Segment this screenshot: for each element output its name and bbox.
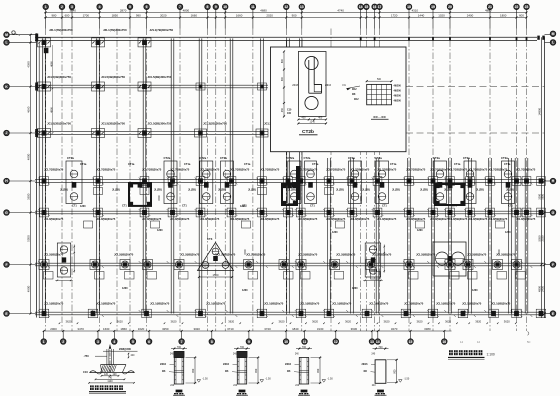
svg-text:JCL8(5B)30x75: JCL8(5B)30x75 — [44, 217, 64, 221]
column row E x=450 — [446, 177, 455, 186]
svg-text:JL(2B): JL(2B) — [444, 188, 452, 191]
grid bubble top axis 21 — [487, 4, 492, 9]
svg-text:400: 400 — [318, 117, 323, 120]
beam stub dark block — [174, 351, 184, 357]
svg-text:500: 500 — [377, 78, 382, 81]
pile cap CT2 x=227 — [221, 161, 234, 204]
grid bubble top axis 17 — [377, 4, 382, 9]
beam vertical x=262 — [260, 38, 262, 313]
svg-text:4800: 4800 — [183, 9, 190, 13]
beam vertical x=44 — [42, 38, 44, 313]
column row G x=335 — [330, 260, 340, 270]
column row E x=378 — [373, 177, 382, 186]
grid bubble top axis 18 — [406, 4, 411, 9]
svg-text:2870: 2870 — [120, 9, 127, 13]
sub cap below G — [409, 272, 419, 280]
svg-text:1260: 1260 — [505, 231, 511, 234]
junction tick — [444, 209, 456, 216]
wire axis line x=286 — [285, 29, 287, 332]
junction tick — [295, 310, 307, 317]
svg-text:2Φ16: 2Φ16 — [160, 363, 167, 366]
svg-text:15: 15 — [409, 340, 413, 344]
junction tick — [484, 310, 496, 317]
junction tick — [38, 310, 50, 317]
column row F x=352 — [348, 208, 357, 217]
junction tick — [256, 178, 268, 185]
level mark — [197, 380, 201, 383]
junction tick — [521, 178, 533, 185]
detail footing wall lines — [106, 349, 108, 365]
column row G x=516 — [512, 260, 522, 270]
grid bubble left axis M — [4, 32, 9, 37]
svg-text:JCL5(3B)300x750: JCL5(3B)300x750 — [47, 121, 71, 125]
sub cap below G — [301, 272, 311, 280]
column row F x=450 — [446, 208, 455, 217]
wire axis line x=225 — [224, 29, 226, 332]
svg-text:900: 900 — [192, 368, 195, 373]
svg-text:JCL1(9B)30x70: JCL1(9B)30x70 — [462, 302, 482, 306]
leader arrow to section — [346, 86, 360, 89]
svg-text:3620: 3620 — [445, 320, 451, 324]
top edge columns right half — [360, 37, 362, 41]
svg-text:3380: 3380 — [424, 327, 431, 331]
svg-text:JZL1(7B)300x750: JZL1(7B)300x750 — [103, 28, 127, 32]
svg-text:JCL7(5B)30x75: JCL7(5B)30x75 — [96, 167, 116, 171]
wire axis line x=130 — [129, 29, 131, 332]
level mark — [322, 380, 326, 383]
dimension line top tier 2 — [44, 17, 527, 19]
grid bubble bottom x=304 — [304, 331, 306, 339]
grid bubble top axis 9 — [213, 4, 218, 9]
detail footing dims — [102, 375, 119, 377]
svg-text:G: G — [5, 211, 8, 215]
column row E x=541 — [537, 177, 546, 186]
junction tick — [226, 310, 238, 317]
wire axis line x=433 — [432, 29, 434, 332]
svg-text:5050: 5050 — [26, 235, 30, 242]
beam row F — [35, 210, 545, 212]
sub cap below E — [140, 188, 149, 195]
sub cap below F — [151, 221, 160, 228]
column row F x=409 — [405, 208, 414, 217]
wire axis line x=180 — [179, 29, 181, 332]
grid bubble top axis 7 — [177, 4, 182, 9]
svg-text:JL(2B): JL(2B) — [362, 188, 370, 191]
junction tick — [139, 310, 151, 317]
right dim — [249, 357, 260, 359]
junction tick — [195, 310, 207, 317]
dimension line bottom — [44, 330, 452, 332]
svg-text:JCL8(5B)30x75: JCL8(5B)30x75 — [200, 217, 220, 221]
wire right edge beam — [541, 37, 543, 317]
pile cap CT2 x=355 — [349, 161, 362, 204]
dimension line left — [30, 35, 32, 314]
svg-text:CT1a: CT1a — [128, 162, 135, 166]
svg-text:3710: 3710 — [227, 327, 234, 331]
wire axis line x=366 — [365, 29, 367, 332]
dim left of CT2b — [283, 52, 285, 117]
grid bubble top axis 15 — [364, 4, 369, 9]
junction tick — [92, 261, 104, 268]
beam row D — [35, 131, 268, 133]
pile cap F-G x=64 — [57, 243, 70, 277]
svg-text:1660: 1660 — [236, 14, 243, 18]
svg-text:JCL8(5B)30x75: JCL8(5B)30x75 — [377, 217, 397, 221]
svg-text:600: 600 — [281, 58, 284, 63]
svg-text:16: 16 — [442, 340, 446, 344]
svg-text:CT1: CT1 — [72, 204, 77, 207]
svg-text:900: 900 — [281, 76, 284, 81]
junction tick — [464, 310, 476, 317]
column row F x=433 — [429, 208, 438, 217]
beam vertical right x=516 — [514, 158, 516, 314]
junction tick — [403, 310, 415, 317]
pile cap CT2 x=74 — [66, 161, 82, 204]
pile circle bottom — [305, 96, 318, 109]
svg-text:J: J — [6, 131, 8, 135]
grid bubble top axis 4 — [97, 4, 102, 9]
column JZ x=44 y=133 — [38, 129, 51, 138]
svg-text:JZL1(7B)300x750: JZL1(7B)300x750 — [150, 28, 174, 32]
column row E x=144 — [140, 177, 149, 186]
svg-text:2Φ16: 2Φ16 — [362, 363, 369, 366]
svg-text:1:100: 1:100 — [487, 352, 495, 356]
grid bubble top axis 11 — [250, 4, 255, 9]
svg-text:12: 12 — [334, 340, 338, 344]
svg-text:JL(2B): JL(2B) — [154, 188, 162, 191]
dim under triangle — [199, 276, 232, 278]
wall corner columns — [282, 184, 287, 189]
svg-text:2000: 2000 — [50, 327, 57, 331]
svg-text:900: 900 — [255, 368, 258, 373]
svg-text:17: 17 — [378, 5, 382, 9]
grid bubble bottom x=44 — [43, 331, 45, 339]
column row G x=301 — [296, 260, 306, 270]
svg-text:1700: 1700 — [83, 14, 90, 18]
svg-text:11: 11 — [251, 5, 255, 9]
detail footing title — [90, 385, 123, 390]
svg-text:JCL8(5B)30x75: JCL8(5B)30x75 — [260, 217, 280, 221]
grid bubble bottom x=212 — [211, 331, 213, 339]
junction tick — [323, 261, 335, 268]
svg-text:1140: 1140 — [107, 380, 113, 383]
column JZ small x=200 y=86 — [196, 83, 205, 90]
grid bubble right axis F — [550, 262, 555, 267]
svg-text:4800: 4800 — [50, 107, 54, 113]
column row G x=148 — [143, 260, 153, 270]
junction tick — [511, 209, 523, 216]
svg-text:CT1a: CT1a — [454, 162, 461, 166]
svg-text:JL(2B): JL(2B) — [336, 188, 344, 191]
junction tick — [226, 178, 238, 185]
column row E x=262 — [258, 177, 267, 186]
beam vertical x=200 — [198, 38, 200, 313]
svg-text:11: 11 — [303, 340, 307, 344]
svg-text:JCL5(3B)300x750: JCL5(3B)300x750 — [101, 121, 125, 125]
junction tick — [195, 261, 207, 268]
svg-text:JCL7(5B)30x75: JCL7(5B)30x75 — [516, 167, 536, 171]
svg-text:1850: 1850 — [112, 14, 119, 18]
detail label — [299, 393, 308, 396]
column base pad — [239, 390, 246, 393]
svg-text:5C: 5C — [527, 340, 530, 344]
pile cap CT2 x=294 — [288, 161, 301, 204]
beam vertical x=288 — [286, 38, 288, 313]
svg-text:18: 18 — [407, 5, 411, 9]
svg-text:900: 900 — [394, 369, 397, 374]
svg-text:4: 4 — [99, 5, 101, 9]
wire axis line x=375 — [374, 29, 376, 332]
svg-text:450: 450 — [281, 107, 284, 112]
svg-text:3620: 3620 — [279, 320, 285, 324]
svg-text:CT2a: CT2a — [199, 156, 206, 160]
svg-text:L: L — [5, 41, 7, 45]
svg-text:CT2b: CT2b — [302, 129, 314, 135]
svg-text:L: L — [552, 41, 554, 45]
svg-text:3620: 3620 — [171, 320, 177, 324]
column row E x=490 — [486, 177, 495, 186]
grid bubble left axis F — [4, 262, 9, 267]
beam vertical right x=352 — [350, 158, 352, 314]
svg-text:JCL5(3B)300x750: JCL5(3B)300x750 — [47, 75, 71, 79]
junction tick — [444, 178, 456, 185]
junction tick — [167, 178, 179, 185]
svg-text:1260: 1260 — [240, 205, 246, 208]
column bar in CT2b — [308, 60, 310, 93]
column row F x=288 — [284, 208, 293, 217]
junction tick — [139, 178, 151, 185]
dimension line right — [541, 180, 543, 182]
column row H x=463 — [458, 309, 468, 318]
svg-text:1500: 1500 — [158, 195, 161, 201]
dim below cap — [363, 279, 383, 281]
svg-text:3: 3 — [97, 340, 99, 344]
column row H x=301 — [296, 309, 306, 318]
column row F x=526 — [522, 208, 531, 217]
svg-text:3620: 3620 — [384, 320, 390, 324]
svg-text:1260: 1260 — [242, 289, 248, 292]
junction tick — [295, 209, 307, 216]
grid bubble right axis E — [550, 311, 555, 316]
grid bubble top axis 2 — [59, 4, 64, 9]
wire axis line x=450 — [449, 29, 451, 332]
svg-text:JL(2B): JL(2B) — [218, 188, 226, 191]
svg-text:JCL1(9B)30x70: JCL1(9B)30x70 — [206, 302, 226, 306]
wire row C dashed right — [406, 86, 545, 88]
wall outline — [174, 358, 183, 385]
junction tick — [372, 209, 384, 216]
column row G x=249 — [244, 260, 254, 270]
junction tick — [372, 178, 384, 185]
title text — [449, 350, 482, 355]
column row H x=44 — [39, 309, 49, 318]
svg-text:1660: 1660 — [191, 14, 198, 18]
column row G x=371 — [366, 260, 376, 270]
svg-text:1440: 1440 — [418, 14, 425, 18]
svg-text:120: 120 — [113, 373, 118, 376]
svg-text:4Φ200: 4Φ200 — [394, 100, 402, 103]
junction tick — [323, 178, 335, 185]
column row F x=301 — [296, 208, 305, 217]
junction tick — [282, 209, 294, 216]
title underline — [448, 356, 485, 358]
sub cap below G — [450, 272, 460, 280]
svg-text:2: 2 — [62, 340, 64, 344]
junction tick — [346, 310, 358, 317]
junction tick — [295, 261, 307, 268]
column row E x=98 — [94, 177, 103, 186]
grid bubble right axis G — [550, 210, 555, 215]
junction tick — [256, 310, 268, 317]
grid bubble top axis 6 — [144, 4, 149, 9]
svg-text:4310: 4310 — [412, 9, 419, 13]
beam stub dark block — [237, 351, 247, 357]
svg-text:3020: 3020 — [193, 327, 200, 331]
svg-text:1260: 1260 — [332, 231, 338, 234]
detail footing leaders — [103, 350, 138, 352]
svg-text:CT1: CT1 — [382, 204, 387, 207]
svg-text:7: 7 — [181, 340, 183, 344]
svg-text:8: 8 — [211, 340, 213, 344]
column JZ x=200 y=133 — [195, 129, 207, 137]
junction tick — [323, 209, 335, 216]
svg-text:13: 13 — [370, 340, 374, 344]
svg-text:CT2a: CT2a — [287, 156, 294, 160]
beam vertical x=301 — [298, 38, 300, 313]
junction tick — [427, 310, 439, 317]
junction tick — [195, 209, 207, 216]
sub cap below E — [94, 188, 103, 195]
svg-text:1800: 1800 — [500, 14, 507, 18]
svg-text:5: 5 — [132, 340, 134, 344]
svg-text:1240: 1240 — [310, 120, 316, 123]
junction tick — [511, 310, 523, 317]
column row H x=262 — [257, 309, 267, 318]
column row F x=200 — [196, 208, 205, 217]
grid bubble right axis L — [550, 40, 555, 45]
wall outline — [237, 358, 246, 385]
svg-text:-1.50: -1.50 — [265, 377, 271, 380]
svg-text:JCL2(9B)30x70: JCL2(9B)30x70 — [336, 253, 356, 257]
detail CT2b outline — [298, 52, 326, 117]
wire axis line x=253 — [252, 29, 254, 332]
svg-text:4680: 4680 — [260, 9, 267, 13]
svg-text:JCL8(5B)30x75: JCL8(5B)30x75 — [326, 217, 346, 221]
wall outline — [299, 358, 308, 385]
svg-text:CT2a: CT2a — [220, 156, 227, 160]
sub cap below G — [179, 272, 189, 280]
pile cap CT2 x=470 — [464, 161, 476, 204]
svg-text:4390: 4390 — [26, 61, 30, 68]
detail column section x=179 — [171, 348, 187, 350]
svg-text:JCL8(5B)30x75: JCL8(5B)30x75 — [430, 217, 450, 221]
svg-text:20: 20 — [448, 5, 452, 9]
junction tick — [226, 261, 238, 268]
svg-text:9: 9 — [248, 340, 250, 344]
pile cap CT2 x=440 — [434, 161, 447, 204]
svg-text:JCL2(9B)30x70: JCL2(9B)30x70 — [416, 253, 436, 257]
svg-text:10: 10 — [284, 340, 288, 344]
svg-text:19: 19 — [431, 5, 435, 9]
grid bubble left axis G — [4, 210, 9, 215]
svg-text:16: 16 — [373, 5, 377, 9]
detail footing right dim — [128, 353, 130, 358]
junction tick — [256, 261, 268, 268]
svg-text:990: 990 — [136, 14, 141, 18]
column row E x=433 — [429, 177, 438, 186]
svg-text:JL(2B): JL(2B) — [420, 188, 428, 191]
sub cap below G — [371, 272, 381, 280]
svg-text:JCL8(5B)30x75: JCL8(5B)30x75 — [516, 217, 536, 221]
sub cap below G — [147, 272, 157, 280]
junction tick — [92, 209, 104, 216]
column row H x=494 — [489, 309, 499, 318]
svg-text:22: 22 — [515, 5, 519, 9]
wall outline x=450 — [436, 184, 465, 205]
svg-text:JCL7(5B)30x75: JCL7(5B)30x75 — [488, 167, 508, 171]
svg-text:JCL2(9B)30x70: JCL2(9B)30x70 — [114, 253, 134, 257]
svg-text:Φ12: Φ12 — [352, 88, 357, 91]
svg-text:-750: -750 — [84, 354, 90, 358]
column row F x=44 — [40, 208, 49, 217]
grid bubble top axis 5 — [127, 4, 132, 9]
svg-text:JCL1(9B)30x70: JCL1(9B)30x70 — [369, 302, 389, 306]
grid bubble bottom x=410 — [410, 331, 412, 339]
svg-text:JCL5(3B)300x750: JCL5(3B)300x750 — [101, 75, 125, 79]
svg-text:1260: 1260 — [122, 287, 128, 290]
column row E x=470 — [466, 177, 475, 186]
svg-text:9: 9 — [215, 5, 217, 9]
svg-text:1500: 1500 — [498, 249, 501, 255]
grid bubble bottom x=182 — [181, 331, 183, 339]
beam vertical right x=510 — [508, 158, 510, 314]
svg-text:400: 400 — [302, 117, 307, 120]
junction tick — [484, 261, 496, 268]
grid bubble top axis 23 — [524, 4, 529, 9]
grid bubble bottom x=114 — [113, 331, 115, 339]
svg-text:-1.50: -1.50 — [202, 377, 208, 380]
junction tick — [521, 261, 533, 268]
svg-text:CT1: CT1 — [182, 204, 187, 207]
column row F x=262 — [258, 208, 267, 217]
svg-text:3620: 3620 — [228, 320, 234, 324]
svg-text:3250: 3250 — [162, 327, 169, 331]
svg-text:C10: C10 — [83, 370, 88, 374]
svg-text:3620: 3620 — [117, 320, 123, 324]
detail label — [174, 393, 183, 396]
column base pad — [377, 390, 384, 393]
grid bubble top axis 3 — [69, 4, 74, 9]
wire axis line x=516 — [516, 29, 518, 332]
grid bubble top axis 20 — [447, 4, 452, 9]
svg-text:JCL7(5B)30x75: JCL7(5B)30x75 — [326, 167, 346, 171]
sub cap below G — [44, 272, 54, 280]
column row H x=200 — [196, 309, 206, 318]
wire left edge beam — [36, 33, 38, 317]
svg-text:2020: 2020 — [160, 14, 167, 18]
svg-text:8: 8 — [207, 5, 209, 9]
svg-text:4Φ200: 4Φ200 — [394, 95, 402, 98]
svg-text:JCL2(9B)30x70: JCL2(9B)30x70 — [180, 253, 200, 257]
pile cap F-G x=373 — [365, 243, 381, 277]
grid bubble bottom x=444 — [443, 331, 445, 339]
column row G x=284 — [279, 260, 289, 270]
grid bubble bottom x=372 — [371, 331, 373, 339]
pile cap 2-pile horizontal — [433, 242, 466, 276]
column row E x=44 — [40, 177, 49, 186]
svg-text:CT2a: CT2a — [433, 156, 440, 160]
pile cap CT2 x=170 — [164, 161, 177, 204]
